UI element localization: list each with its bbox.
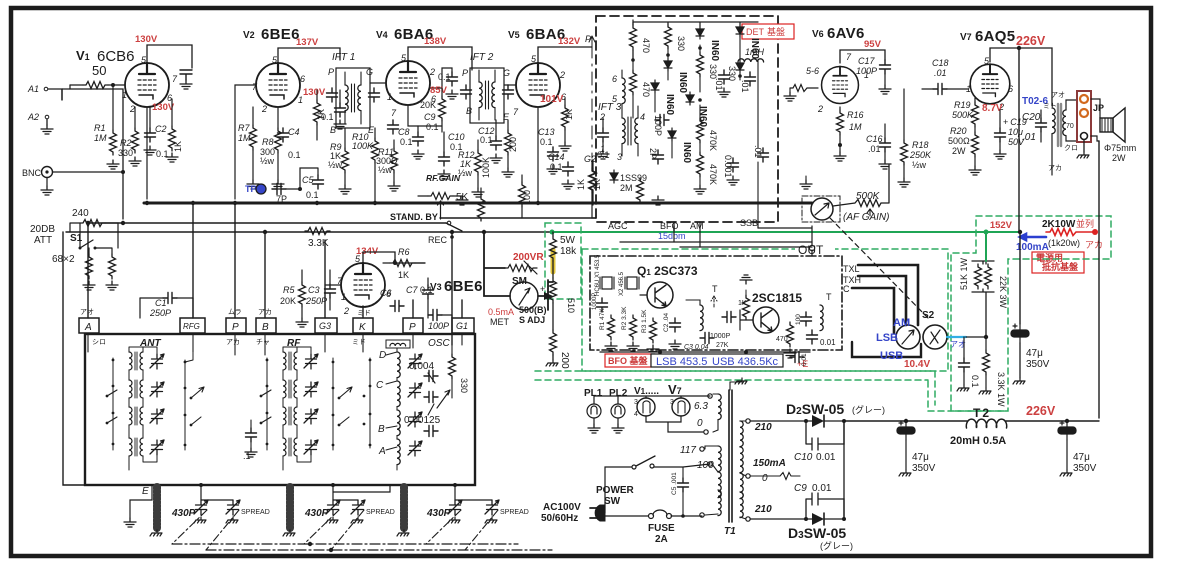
svg-text:BFO 基盤: BFO 基盤 xyxy=(608,355,649,366)
svg-text:T1: T1 xyxy=(724,526,736,537)
svg-text:C9: C9 xyxy=(794,483,807,494)
svg-text:.01: .01 xyxy=(934,68,947,78)
svg-text:350V: 350V xyxy=(1026,359,1050,370)
svg-text:6AV6: 6AV6 xyxy=(827,25,865,42)
connector JP speaker xyxy=(1077,91,1091,142)
svg-text:AM: AM xyxy=(690,221,704,231)
wire left chassis return xyxy=(63,232,85,485)
svg-text:3: 3 xyxy=(617,152,622,162)
svg-text:V1.....: V1..... xyxy=(634,386,659,397)
svg-text:0.1: 0.1 xyxy=(970,375,980,388)
svg-text:アカ: アカ xyxy=(1048,164,1062,172)
svg-text:アオ: アオ xyxy=(80,308,94,316)
coil OSC row3 xyxy=(397,410,400,436)
switch ANT rotor contacts xyxy=(184,360,186,450)
svg-text:0: 0 xyxy=(762,473,768,484)
svg-text:R2 3.3K: R2 3.3K xyxy=(621,306,628,330)
svg-text:B: B xyxy=(378,424,385,435)
svg-text:7P: 7P xyxy=(276,194,287,204)
svg-text:PL1: PL1 xyxy=(584,388,603,399)
svg-text:R3 1.5K: R3 1.5K xyxy=(641,309,648,333)
coil OSC row1 xyxy=(397,352,400,378)
svg-text:1M: 1M xyxy=(849,122,862,132)
wire vertical x=325 G3 xyxy=(324,240,326,318)
svg-text:132V: 132V xyxy=(558,36,581,47)
svg-text:2W: 2W xyxy=(1112,153,1126,163)
svg-text:250K: 250K xyxy=(909,150,932,160)
svg-text:2: 2 xyxy=(343,306,349,316)
wire V5 grid xyxy=(504,84,516,86)
wire V4 output drop xyxy=(408,105,418,126)
diode IN60 g xyxy=(668,128,676,141)
diode 1SS99 xyxy=(610,170,618,183)
svg-text:REC: REC xyxy=(428,235,448,245)
link gang dash-dot line 2 xyxy=(206,549,552,551)
wire V2 plate up to 137V rail xyxy=(278,48,340,63)
wire green dashed double line lower xyxy=(535,379,928,381)
svg-text:2: 2 xyxy=(129,104,135,114)
wire right riser xyxy=(1098,141,1100,418)
terminal 6.3 tap xyxy=(708,394,712,398)
wire BFO bus lower xyxy=(620,228,812,247)
coil OSC top link xyxy=(390,343,406,346)
svg-text:350V: 350V xyxy=(912,463,936,474)
svg-text:1: 1 xyxy=(341,292,346,302)
svg-text:27K: 27K xyxy=(716,342,729,349)
svg-text:TP: TP xyxy=(245,184,257,194)
wire grid down xyxy=(70,85,113,130)
wire AGC bus from DET xyxy=(440,217,596,219)
wire solid green 152V line xyxy=(552,231,1020,233)
capacitor 100P osc xyxy=(428,310,442,321)
resistor 2K10W red xyxy=(1046,229,1095,236)
wire vertical x=363 K xyxy=(362,306,364,318)
svg-text:IFT 2: IFT 2 xyxy=(470,52,494,63)
svg-text:チャ: チャ xyxy=(256,338,270,346)
svg-text:B: B xyxy=(466,106,472,116)
svg-text:47μ: 47μ xyxy=(912,452,929,463)
svg-text:½w: ½w xyxy=(260,156,275,166)
svg-text:AC100V: AC100V xyxy=(543,502,581,513)
svg-text:85V: 85V xyxy=(430,85,448,96)
svg-text:½w: ½w xyxy=(378,165,393,175)
switch rotary func xyxy=(811,198,833,220)
trimmer group 1 SPREAD xyxy=(226,500,240,515)
transistor Q1 xyxy=(647,282,673,308)
box BFO inner dash-dot xyxy=(590,256,842,350)
svg-text:226V: 226V xyxy=(1016,34,1046,48)
wire bfo out up xyxy=(811,226,813,256)
ground det center xyxy=(652,196,664,205)
svg-text:1SS99: 1SS99 xyxy=(620,173,647,183)
coil IFT3 upper winding xyxy=(622,78,625,104)
diode D3 xyxy=(750,518,812,520)
coil ANT row1 xyxy=(129,352,143,370)
wire det top rail xyxy=(633,22,758,26)
wire bus y=219 xyxy=(88,222,446,224)
svg-text:C10: C10 xyxy=(448,132,465,142)
wire speaker feed xyxy=(1091,99,1100,141)
capacitor IFT1 tuning caps xyxy=(327,88,338,102)
svg-text:18k: 18k xyxy=(560,246,577,257)
svg-text:C: C xyxy=(843,284,850,294)
svg-text:4: 4 xyxy=(634,411,638,418)
wire V5 plate to rail xyxy=(538,47,592,63)
svg-text:0.01: 0.01 xyxy=(816,452,836,463)
wire fuse to primary xyxy=(671,515,702,517)
box green dashed power resistor board outline xyxy=(951,216,1111,411)
svg-text:C3 0.04: C3 0.04 xyxy=(684,344,709,351)
svg-text:アオ: アオ xyxy=(1051,91,1065,99)
ground T1 core xyxy=(730,382,742,390)
box LSB USB freq xyxy=(651,354,783,367)
svg-text:5-6: 5-6 xyxy=(806,66,819,76)
box green dashed small S-ADJ board xyxy=(545,223,581,299)
svg-text:G3: G3 xyxy=(319,321,331,331)
wire A1 feed xyxy=(62,89,123,219)
svg-text:R20: R20 xyxy=(950,126,967,136)
wire V4 grid left to IFT1 xyxy=(370,82,386,84)
coil ANT row3 xyxy=(129,407,143,425)
shield bar 3 xyxy=(400,487,408,528)
svg-text:20K: 20K xyxy=(420,100,436,110)
svg-text:C4: C4 xyxy=(288,127,300,137)
tube V7 6AQ5 xyxy=(970,59,1010,104)
svg-text:.01: .01 xyxy=(1022,132,1036,143)
svg-text:V6: V6 xyxy=(812,29,824,40)
svg-text:100K: 100K xyxy=(481,157,491,178)
bus nested 3 xyxy=(852,288,894,333)
svg-text:47μ: 47μ xyxy=(1026,348,1043,359)
svg-text:1K: 1K xyxy=(576,179,586,190)
svg-text:IN60: IN60 xyxy=(709,40,720,62)
svg-text:C1: C1 xyxy=(155,298,167,308)
svg-text:2: 2 xyxy=(599,112,605,122)
svg-text:C14: C14 xyxy=(548,152,565,162)
svg-text:アカ: アカ xyxy=(1085,240,1103,250)
svg-text:137V: 137V xyxy=(296,37,319,48)
svg-text:3: 3 xyxy=(634,399,638,406)
svg-text:1K: 1K xyxy=(398,270,409,280)
switch S2 wafer b xyxy=(923,325,947,349)
label OUT on green box edge xyxy=(795,242,835,256)
tube V6 6AV6 xyxy=(822,61,859,103)
svg-text:0.001: 0.001 xyxy=(723,155,733,178)
svg-text:1: 1 xyxy=(600,144,605,154)
resistor 470K a xyxy=(697,118,704,143)
svg-text:0.1: 0.1 xyxy=(306,190,319,200)
resistor 3.3K xyxy=(305,228,330,235)
wire E ground xyxy=(130,485,152,518)
svg-text:2: 2 xyxy=(817,104,823,114)
svg-text:BFO: BFO xyxy=(660,221,679,231)
svg-text:R5: R5 xyxy=(283,285,295,295)
svg-text:T2: T2 xyxy=(973,406,991,420)
svg-text:6BE6: 6BE6 xyxy=(261,26,300,43)
svg-text:50/60Hz: 50/60Hz xyxy=(541,513,578,524)
transformer T1 heater winding xyxy=(718,394,721,420)
switch ANT contacts xyxy=(112,358,114,450)
svg-text:.01: .01 xyxy=(753,145,763,158)
svg-text:.01: .01 xyxy=(714,78,724,91)
capacitor 47u second xyxy=(897,421,915,440)
svg-text:E: E xyxy=(368,125,375,135)
svg-text:138V: 138V xyxy=(424,36,447,47)
svg-text:T: T xyxy=(712,284,718,294)
svg-text:210: 210 xyxy=(754,422,772,433)
shield bar 2 xyxy=(286,487,294,528)
transformer T1 primary xyxy=(718,446,721,472)
svg-text:20mH 0.5A: 20mH 0.5A xyxy=(950,435,1006,447)
svg-text:0.5mA: 0.5mA xyxy=(488,307,514,317)
coil tank Q1 xyxy=(686,300,700,305)
ground 200 xyxy=(546,360,558,366)
svg-text:100P: 100P xyxy=(653,115,663,136)
svg-text:95V: 95V xyxy=(864,39,882,50)
box DET board dashed xyxy=(596,16,778,222)
wire V4 plate to rail xyxy=(408,47,472,70)
svg-text:330: 330 xyxy=(676,36,686,51)
svg-text:0.004: 0.004 xyxy=(409,361,434,372)
svg-text:2: 2 xyxy=(559,70,565,80)
svg-text:470: 470 xyxy=(641,38,651,53)
bus terminal box xyxy=(852,342,921,357)
svg-text:クロ: クロ xyxy=(1064,144,1078,152)
wire B+ main xyxy=(844,420,1099,422)
svg-text:D3SW-05: D3SW-05 xyxy=(788,525,846,541)
svg-text:IFT 1: IFT 1 xyxy=(332,52,355,63)
svg-text:50: 50 xyxy=(92,63,106,78)
label BFO基盤 red box xyxy=(605,354,651,367)
svg-text:4: 4 xyxy=(640,112,645,122)
svg-text:10.4V: 10.4V xyxy=(904,359,930,370)
svg-text:P: P xyxy=(232,322,239,333)
svg-text:RFG: RFG xyxy=(183,322,200,331)
svg-text:200VR: 200VR xyxy=(513,252,544,263)
ground A2 xyxy=(41,125,53,134)
wire OSC links xyxy=(386,348,397,470)
svg-text:130V: 130V xyxy=(135,34,158,45)
svg-text:BNC: BNC xyxy=(22,168,42,178)
svg-text:P: P xyxy=(328,67,334,77)
ground BNC xyxy=(46,178,48,186)
svg-text:3: 3 xyxy=(670,399,674,406)
label DET基盤 red box xyxy=(742,24,794,39)
svg-text:B: B xyxy=(330,125,336,135)
diode IN60 c xyxy=(664,58,672,71)
wire 47u feed xyxy=(1019,232,1021,324)
svg-text:A2: A2 xyxy=(27,112,39,122)
svg-text:0.00125: 0.00125 xyxy=(404,415,441,426)
svg-text:47μ: 47μ xyxy=(1073,452,1090,463)
svg-text:2P: 2P xyxy=(648,148,658,159)
svg-text:C: C xyxy=(376,380,384,391)
wire V1 plate to B+ xyxy=(147,45,192,68)
wire meter loop xyxy=(484,232,553,310)
transformer OPT T02-6 xyxy=(1052,108,1055,134)
svg-text:T: T xyxy=(826,292,832,302)
svg-text:SPREAD: SPREAD xyxy=(500,509,529,516)
svg-text:0.1: 0.1 xyxy=(426,122,439,132)
svg-text:0.1: 0.1 xyxy=(550,162,563,172)
svg-text:2A: 2A xyxy=(655,534,668,545)
svg-text:0.01: 0.01 xyxy=(801,353,808,366)
svg-text:R8: R8 xyxy=(262,137,274,147)
terminal box G3 xyxy=(315,318,337,333)
wire ANT to RFG xyxy=(185,352,193,362)
wire parallel bars xyxy=(972,255,994,337)
terminal box K xyxy=(353,318,373,333)
switch ANT rotor arrow xyxy=(191,387,204,425)
resistor 68 a xyxy=(86,254,93,279)
tube V1 6CB6 xyxy=(125,57,169,107)
svg-text:2W: 2W xyxy=(952,146,966,156)
coil RF row3 xyxy=(283,407,297,425)
node det dots xyxy=(631,58,635,62)
svg-text:22K 3W: 22K 3W xyxy=(998,276,1008,309)
svg-text:G1: G1 xyxy=(456,321,468,331)
svg-text:C6: C6 xyxy=(380,288,392,298)
svg-text:USB: USB xyxy=(880,350,903,362)
svg-text:152V: 152V xyxy=(990,220,1013,231)
box green dashed BFO + switch board xyxy=(582,249,948,371)
svg-text:(グレー): (グレー) xyxy=(852,404,885,415)
resistor 330 det2 xyxy=(697,52,704,77)
svg-text:330: 330 xyxy=(459,378,469,393)
svg-text:USB 436.5Kc: USB 436.5Kc xyxy=(712,356,779,368)
svg-text:100P: 100P xyxy=(856,66,877,76)
svg-text:R2: R2 xyxy=(120,138,132,148)
wire V6 plate xyxy=(840,50,885,63)
svg-text:2: 2 xyxy=(429,67,435,77)
resistor 470K b xyxy=(697,152,704,177)
tube V3 6BE6 mixer-osc xyxy=(341,257,385,307)
svg-text:1mH: 1mH xyxy=(745,47,765,57)
svg-text:SSB: SSB xyxy=(740,218,758,228)
svg-text:150mA: 150mA xyxy=(753,458,786,469)
svg-text:HC6U X'l 453.5: HC6U X'l 453.5 xyxy=(595,254,601,296)
svg-text:ムラ: ムラ xyxy=(228,308,242,316)
svg-text:6: 6 xyxy=(167,93,172,103)
svg-text:S1: S1 xyxy=(70,233,83,244)
svg-text:C2 .04: C2 .04 xyxy=(663,312,670,332)
wire S2 blue out xyxy=(947,336,966,338)
svg-text:470K: 470K xyxy=(708,130,718,151)
svg-text:½w: ½w xyxy=(458,168,473,178)
svg-text:STAND. BY: STAND. BY xyxy=(390,212,438,222)
svg-text:C2: C2 xyxy=(155,124,167,134)
svg-text:70: 70 xyxy=(1066,123,1074,130)
node green junction dot 2 xyxy=(984,230,989,235)
svg-text:JP: JP xyxy=(1093,103,1104,113)
wire vertical x=265 B xyxy=(264,232,266,318)
wire V7 cathode riser xyxy=(1018,48,1020,232)
switch OSC rotor xyxy=(428,373,450,415)
wire bus y=229 xyxy=(66,231,552,233)
svg-text:1: 1 xyxy=(122,90,127,100)
svg-text:A: A xyxy=(84,322,92,333)
svg-text:½w: ½w xyxy=(328,160,343,170)
coil OSC row4 xyxy=(397,439,400,465)
svg-text:(1k20w): (1k20w) xyxy=(1048,238,1080,248)
svg-text:3.3K 1W: 3.3K 1W xyxy=(996,372,1006,407)
link gang diagonals xyxy=(172,510,498,550)
speaker xyxy=(1100,118,1113,132)
svg-text:0.1: 0.1 xyxy=(540,137,553,147)
switch RF contacts xyxy=(266,358,268,450)
svg-text:6: 6 xyxy=(1008,84,1013,94)
wire main thick signal bus y=208 xyxy=(144,202,812,205)
svg-text:R1 47K: R1 47K xyxy=(599,308,606,330)
svg-text:ミト: ミト xyxy=(1043,103,1057,110)
tube V2 6BE6 xyxy=(256,57,300,107)
terminal box P xyxy=(226,318,246,333)
svg-text:ATT: ATT xyxy=(34,235,52,246)
svg-text:ミド: ミド xyxy=(352,339,366,346)
svg-text:1M: 1M xyxy=(94,133,107,143)
wire bfo bottom rail xyxy=(600,351,810,353)
svg-text:R1: R1 xyxy=(94,123,106,133)
svg-text:330: 330 xyxy=(118,148,133,158)
svg-text:SPREAD: SPREAD xyxy=(366,509,395,516)
diode IN60 e xyxy=(651,80,659,93)
resistor 330 det xyxy=(665,24,672,49)
svg-text:SPREAD: SPREAD xyxy=(241,509,270,516)
svg-text:A1: A1 xyxy=(27,84,39,94)
svg-text:R19: R19 xyxy=(954,100,971,110)
wire BFO bus xyxy=(673,226,675,232)
svg-text:½w: ½w xyxy=(912,160,927,170)
heater V7 xyxy=(672,398,690,416)
wire V3 plate up xyxy=(363,252,425,263)
box switch shield dash-dot xyxy=(802,196,840,222)
coil T out xyxy=(820,305,823,331)
svg-text:アカ: アカ xyxy=(258,308,272,316)
ground 1K q2 xyxy=(745,290,747,295)
svg-text:240: 240 xyxy=(72,208,89,219)
svg-text:6AQ5: 6AQ5 xyxy=(975,28,1015,45)
wire green dashed corner down xyxy=(928,371,1008,411)
svg-text:500Ω: 500Ω xyxy=(948,136,970,146)
svg-text:SW: SW xyxy=(604,496,621,507)
svg-text:2K10W: 2K10W xyxy=(1042,219,1076,230)
arrow meter plus xyxy=(544,292,553,300)
svg-text:RF.GAIN: RF.GAIN xyxy=(426,173,461,183)
svg-text:430P: 430P xyxy=(304,508,329,519)
terminal box G1 xyxy=(452,318,474,333)
svg-text:抵抗基盤: 抵抗基盤 xyxy=(1042,261,1079,272)
svg-text:0.1: 0.1 xyxy=(288,150,301,160)
wire det verticals xyxy=(674,222,758,247)
switch OSC contacts xyxy=(369,358,371,448)
wire V7 plate to OPT xyxy=(990,48,1052,106)
trimmer group 2 SPREAD xyxy=(351,500,365,515)
diode IN60 b xyxy=(736,24,744,37)
link dashed mechanical S2 coupling xyxy=(830,218,928,318)
svg-text:並列: 並列 xyxy=(1076,218,1094,229)
svg-text:LSB 453.5: LSB 453.5 xyxy=(656,356,707,368)
svg-text:.01: .01 xyxy=(740,80,750,93)
capacitor 47u 350V first xyxy=(1011,324,1029,343)
wire green vertical drop xyxy=(985,232,987,261)
svg-text:C8: C8 xyxy=(398,127,410,137)
terminal box RFG xyxy=(180,318,205,333)
coil ANT row2 xyxy=(129,380,143,398)
transistor Q2 xyxy=(753,307,779,333)
tube V5 6BA6 xyxy=(516,57,560,107)
svg-text:200: 200 xyxy=(508,137,518,152)
svg-text:C13: C13 xyxy=(538,127,555,137)
